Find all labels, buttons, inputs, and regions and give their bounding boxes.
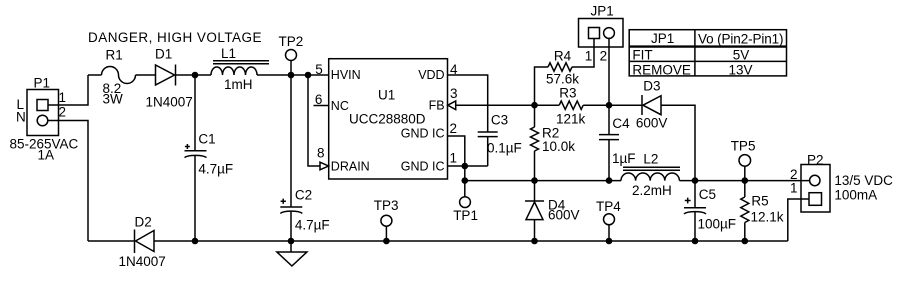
wire FB to feedback node [456, 104, 535, 106]
svg-text:13/5 VDC: 13/5 VDC [834, 173, 893, 188]
svg-text:2: 2 [600, 49, 608, 64]
resistor R1 [102, 67, 136, 84]
resistor R3 [559, 101, 583, 109]
svg-text:8: 8 [317, 145, 325, 160]
node TP4 [606, 238, 613, 245]
svg-text:1A: 1A [38, 147, 55, 162]
wire return to P2 pin1 [788, 199, 809, 241]
wire R1 to D1 [136, 74, 156, 76]
node C1 bottom [192, 238, 199, 245]
svg-text:DANGER, HIGH VOLTAGE: DANGER, HIGH VOLTAGE [88, 30, 262, 45]
svg-text:10.0k: 10.0k [542, 139, 575, 154]
svg-text:JP1: JP1 [651, 31, 674, 46]
wire FB node up to R4 [535, 67, 549, 105]
svg-text:D3: D3 [643, 79, 660, 94]
node IC GND [462, 163, 469, 170]
svg-text:Vo (Pin2-Pin1): Vo (Pin2-Pin1) [698, 32, 784, 47]
svg-text:2.2mH: 2.2mH [632, 183, 672, 198]
svg-text:2: 2 [59, 105, 67, 120]
svg-text:L1: L1 [221, 46, 236, 61]
svg-text:1: 1 [450, 151, 458, 166]
svg-text:1N4007: 1N4007 [119, 254, 166, 269]
svg-text:121k: 121k [556, 111, 586, 126]
diode D4 [525, 181, 544, 241]
wire JP1 pin2 to R3 node [608, 39, 610, 106]
svg-text:VDD: VDD [418, 68, 444, 82]
svg-text:1: 1 [59, 90, 67, 105]
svg-text:100µF: 100µF [698, 217, 737, 232]
svg-text:DRAIN: DRAIN [331, 159, 370, 173]
wire P1 pin2 down to neutral rail [48, 121, 88, 242]
node DRAIN branch [305, 72, 312, 79]
test point TP1 [460, 181, 471, 208]
diode D2 [135, 230, 155, 254]
diode D3 [642, 95, 661, 115]
svg-text:600V: 600V [636, 116, 668, 131]
output rail right [679, 180, 809, 182]
wire GND node to output rail [464, 166, 466, 181]
node R5 bottom [742, 238, 749, 245]
node R3/JP1/C4/D3 [606, 102, 613, 109]
U1 pin 6 NC stub [314, 105, 329, 107]
node C5 bottom [692, 238, 699, 245]
svg-text:3: 3 [450, 86, 458, 101]
U1 pin 3 arrow [448, 101, 456, 110]
svg-text:HVIN: HVIN [331, 68, 361, 82]
ground [277, 241, 307, 266]
capacitor C5 [684, 181, 706, 241]
wire FB node to R3 [535, 104, 560, 106]
resistor R4 [548, 63, 572, 71]
svg-text:1µF: 1µF [612, 151, 636, 166]
svg-text:1: 1 [790, 180, 798, 195]
capacitor C1 [185, 75, 207, 241]
wire node to R2 [534, 105, 536, 127]
node FB/R4/R3/R2 [531, 102, 538, 109]
U1 pin 8 arrow [320, 162, 329, 170]
svg-text:GND IC: GND IC [401, 159, 445, 173]
svg-text:P2: P2 [807, 152, 824, 167]
svg-text:C3: C3 [491, 112, 508, 127]
svg-text:4.7µF: 4.7µF [198, 162, 233, 177]
IC U1 [329, 59, 448, 179]
capacitor C2 [280, 75, 302, 241]
svg-text:1mH: 1mH [224, 77, 253, 92]
capacitor C4 [599, 105, 619, 180]
svg-text:0.1µF: 0.1µF [487, 140, 522, 155]
node rail/R2/D4 [531, 177, 538, 184]
node rail/TP5/R5 [742, 177, 749, 184]
svg-text:UCC28880D: UCC28880D [349, 112, 426, 127]
wire U1 pin1 to C3 bottom [448, 165, 488, 167]
wire P1 pin1 to AC rail [48, 75, 88, 105]
neutral bottom rail [154, 240, 788, 242]
wire D3 to output node [661, 105, 695, 180]
inductor L1 [211, 61, 269, 75]
svg-text:4.7µF: 4.7µF [295, 218, 330, 233]
node rail/D3/C5 [692, 177, 699, 184]
svg-text:R4: R4 [554, 49, 572, 64]
svg-text:3W: 3W [103, 91, 124, 106]
svg-text:JP1: JP1 [591, 4, 614, 19]
test point TP5 [739, 155, 751, 181]
svg-text:R1: R1 [106, 48, 123, 63]
node D4 bottom [531, 238, 538, 245]
output rail left [465, 180, 621, 182]
neutral bottom rail left [88, 240, 135, 242]
connector P1 [27, 90, 59, 136]
svg-text:1: 1 [585, 49, 593, 64]
connector JP1 [579, 19, 624, 48]
svg-text:13V: 13V [729, 63, 753, 78]
node rail/C4/L2 [606, 177, 613, 184]
wire U1 pin2 to GND node [448, 136, 465, 166]
node C2/ground [288, 238, 295, 245]
wire VDD to C3 [448, 75, 488, 132]
svg-text:5: 5 [315, 62, 323, 77]
svg-text:57.6k: 57.6k [546, 72, 579, 87]
svg-text:FB: FB [429, 99, 445, 113]
svg-text:R3: R3 [559, 85, 576, 100]
svg-text:TP5: TP5 [731, 139, 756, 154]
svg-text:600V: 600V [548, 208, 580, 223]
svg-text:TP3: TP3 [374, 198, 399, 213]
svg-text:P1: P1 [34, 76, 51, 91]
svg-text:12.1k: 12.1k [751, 209, 784, 224]
wire R3 to node [583, 104, 609, 106]
wire node to D3 [609, 104, 642, 106]
test point TP2 [286, 50, 297, 76]
svg-text:U1: U1 [378, 88, 395, 103]
wire D1 to L1 [176, 74, 212, 76]
svg-text:C1: C1 [198, 132, 215, 147]
connector P2 [801, 165, 830, 213]
resistor R2 [531, 127, 539, 151]
svg-text:N: N [16, 110, 26, 125]
test point TP4 [604, 214, 615, 241]
wire L1 to U1 HVIN [257, 74, 329, 76]
svg-text:C5: C5 [699, 187, 716, 202]
svg-text:REMOVE: REMOVE [632, 63, 691, 78]
node TP2/C2 [288, 72, 295, 79]
svg-text:GND IC: GND IC [401, 127, 445, 141]
svg-text:1N4007: 1N4007 [146, 94, 193, 109]
svg-text:TP2: TP2 [279, 34, 304, 49]
node D1/C1/L1 [192, 72, 199, 79]
svg-text:5V: 5V [733, 48, 750, 63]
svg-text:TP1: TP1 [453, 208, 478, 223]
node TP1 [462, 177, 469, 184]
svg-text:D2: D2 [135, 214, 152, 229]
wire AC rail to R1 [88, 74, 102, 76]
node TP3 [383, 238, 390, 245]
svg-text:NC: NC [331, 99, 349, 113]
svg-text:100mA: 100mA [834, 188, 877, 203]
capacitor C3 [478, 132, 498, 166]
test point TP3 [381, 215, 392, 241]
diode D1 [156, 65, 176, 86]
wire DRAIN branch [308, 75, 320, 166]
resistor R5 [741, 181, 749, 241]
svg-text:TP4: TP4 [596, 199, 621, 214]
JP1 settings table [629, 30, 786, 78]
svg-text:L2: L2 [643, 152, 658, 167]
wire R4 to JP1 pin1 [572, 39, 594, 68]
svg-text:FIT: FIT [632, 48, 652, 63]
inductor L2 [621, 167, 680, 180]
wire R2 to output rail [534, 151, 536, 181]
svg-text:C4: C4 [612, 116, 630, 131]
svg-text:C2: C2 [295, 188, 312, 203]
svg-text:D1: D1 [155, 47, 172, 62]
svg-text:R5: R5 [751, 194, 768, 209]
svg-text:2: 2 [450, 121, 458, 136]
